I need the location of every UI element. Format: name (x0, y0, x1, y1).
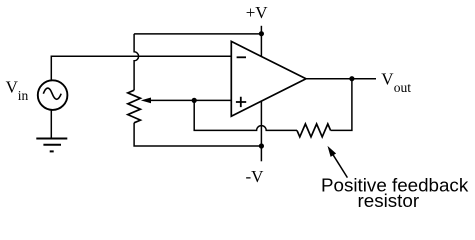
label Vin (6, 78, 29, 104)
potentiometer R1 (128, 90, 141, 123)
ground (36, 110, 67, 151)
wire feedback from node to resistor with hop over -V wire (194, 100, 297, 130)
svg-text:in: in (18, 88, 29, 103)
wire +V rail to pot top (134, 33, 261, 35)
op-amp inverting input pin - (237, 56, 246, 58)
wire pot top vertical with hop over Vin wire (134, 34, 139, 90)
wire op-amp V- pin to -V (260, 101, 262, 161)
wire +V to op-amp V+ pin (260, 26, 262, 57)
svg-text:out: out (394, 80, 412, 95)
node junction +V (259, 31, 264, 36)
annotation text positive feedback resistor (321, 175, 469, 211)
annotation arrow to resistor (328, 146, 348, 178)
wire resistor to output node (331, 79, 352, 131)
svg-text:V: V (6, 78, 19, 97)
resistor R2 positive feedback (297, 124, 331, 137)
wire output (306, 78, 376, 80)
wire Vin source to inverting input (51, 56, 231, 80)
op-amp U1 (231, 41, 306, 116)
svg-text:-V: -V (246, 167, 265, 186)
node junction -V (259, 143, 264, 148)
potentiometer wiper arrow (141, 98, 232, 104)
source V1 Vin AC source (38, 80, 68, 110)
svg-text:V: V (381, 70, 394, 89)
label Vout (381, 70, 411, 95)
svg-text:+V: +V (246, 3, 269, 22)
node junction output (349, 76, 354, 81)
node junction wiper feedback (192, 98, 197, 103)
op-amp noninverting input pin + (236, 97, 246, 107)
wire pot bottom to -V rail (134, 123, 261, 146)
svg-text:resistor: resistor (358, 190, 420, 211)
